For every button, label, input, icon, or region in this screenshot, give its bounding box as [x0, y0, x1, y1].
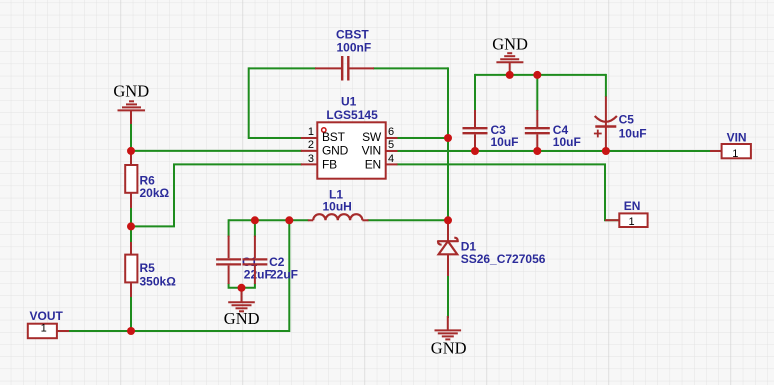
svg-text:EN: EN [624, 199, 641, 213]
svg-text:1: 1 [308, 126, 314, 138]
capacitor C1 [216, 236, 241, 284]
svg-text:U1: U1 [341, 95, 357, 109]
svg-text:R5: R5 [140, 261, 156, 275]
svg-text:10uF: 10uF [553, 135, 581, 149]
svg-text:CBST: CBST [336, 28, 369, 42]
wire top GND rail [475, 74, 606, 76]
inductor L1 [308, 214, 369, 220]
node SW junction [444, 134, 452, 142]
wire CBST left [249, 67, 316, 69]
svg-text:20kΩ: 20kΩ [140, 186, 170, 200]
capacitor C2 [242, 236, 267, 284]
svg-text:SW: SW [362, 130, 382, 144]
svg-text:GND: GND [113, 82, 149, 101]
svg-text:GND: GND [322, 143, 349, 157]
svg-text:2: 2 [308, 139, 314, 151]
node VOUT R5 junction [127, 327, 135, 335]
svg-text:EN: EN [365, 157, 381, 171]
wire SW node vertical [447, 67, 449, 233]
wire C1 bottom [229, 283, 255, 288]
svg-text:5: 5 [388, 139, 394, 151]
resistor R5 [125, 255, 137, 283]
node VOUT riser junction [285, 216, 293, 224]
port VOUT [28, 309, 69, 338]
svg-text:10uF: 10uF [491, 135, 519, 149]
wire R6-R5 vertical [130, 151, 132, 331]
node GND rail junction [506, 71, 514, 79]
svg-text:1: 1 [732, 148, 738, 160]
svg-text:FB: FB [322, 157, 337, 171]
svg-text:SS26_C727056: SS26_C727056 [461, 252, 546, 266]
wire BST net vertical+horizontal [249, 67, 302, 138]
wire CBST right [373, 67, 448, 69]
ground GND top-left [118, 101, 146, 124]
svg-text:VIN: VIN [727, 131, 747, 145]
ground GND below C1 C2 [228, 288, 255, 312]
wire D1 to ground [447, 254, 449, 318]
svg-text:LGS5145: LGS5145 [326, 108, 378, 122]
wire FB net [131, 164, 302, 226]
diode D1 SS26 [438, 222, 458, 276]
resistor R5 leads [130, 242, 132, 297]
wire C1 top branch [228, 219, 230, 237]
svg-text:6: 6 [388, 126, 394, 138]
node C2 top junction [251, 216, 259, 224]
resistor R6 leads [130, 152, 132, 208]
port VIN [710, 131, 751, 161]
svg-text:3: 3 [308, 153, 314, 165]
node C3 bottom junction [471, 147, 479, 155]
wire C3 vertical [474, 74, 476, 111]
node SW L1 D1 junction [444, 216, 452, 224]
svg-text:1: 1 [41, 323, 47, 335]
svg-text:22uF: 22uF [244, 267, 272, 281]
capacitor C4 [525, 110, 550, 151]
wire GND row to U1 pin2 [131, 150, 302, 152]
IC U1 LGS5145 [317, 122, 385, 178]
capacitor C3 [463, 110, 488, 151]
capacitor C5 polarized [594, 96, 617, 148]
svg-text:C5: C5 [619, 113, 635, 127]
svg-text:BST: BST [322, 130, 346, 144]
U1 pin stubs left [301, 138, 398, 164]
node R6-R5 FB junction [127, 222, 135, 230]
port EN [605, 199, 648, 228]
wire GND stub from symbol [130, 112, 132, 151]
wire VOUT rail [68, 220, 289, 331]
svg-text:GND: GND [492, 34, 528, 53]
node C1 C2 ground junction [238, 284, 246, 292]
svg-text:GND: GND [431, 338, 467, 357]
ground GND top-right [496, 53, 523, 75]
wire C5 vertical [605, 74, 607, 97]
wire output top rail [229, 219, 309, 221]
node C4 bottom junction [533, 147, 541, 155]
wire L1 right to SW [368, 219, 449, 221]
svg-text:VOUT: VOUT [30, 309, 64, 323]
svg-text:22uF: 22uF [270, 267, 298, 281]
wire C4 vertical [536, 74, 538, 111]
node C4 top junction [533, 71, 541, 79]
svg-text:VIN: VIN [362, 143, 381, 157]
svg-text:10uH: 10uH [323, 200, 352, 214]
ground GND below D1 [435, 316, 462, 339]
svg-text:10uF: 10uF [619, 127, 647, 141]
svg-text:GND: GND [224, 309, 260, 328]
svg-text:350kΩ: 350kΩ [140, 275, 177, 289]
resistor R6 [125, 165, 137, 193]
node C5 bottom junction [602, 147, 610, 155]
wire SW pin [397, 137, 449, 139]
capacitor CBST [315, 56, 374, 81]
wire C2 top branch [254, 219, 256, 237]
node R6 top junction [127, 147, 135, 155]
wire EN row [397, 164, 621, 220]
svg-text:1: 1 [629, 216, 635, 228]
svg-text:4: 4 [388, 153, 394, 165]
svg-text:100nF: 100nF [337, 41, 372, 55]
wire VIN row [397, 150, 712, 152]
U1 pin1 indicator [322, 128, 326, 132]
